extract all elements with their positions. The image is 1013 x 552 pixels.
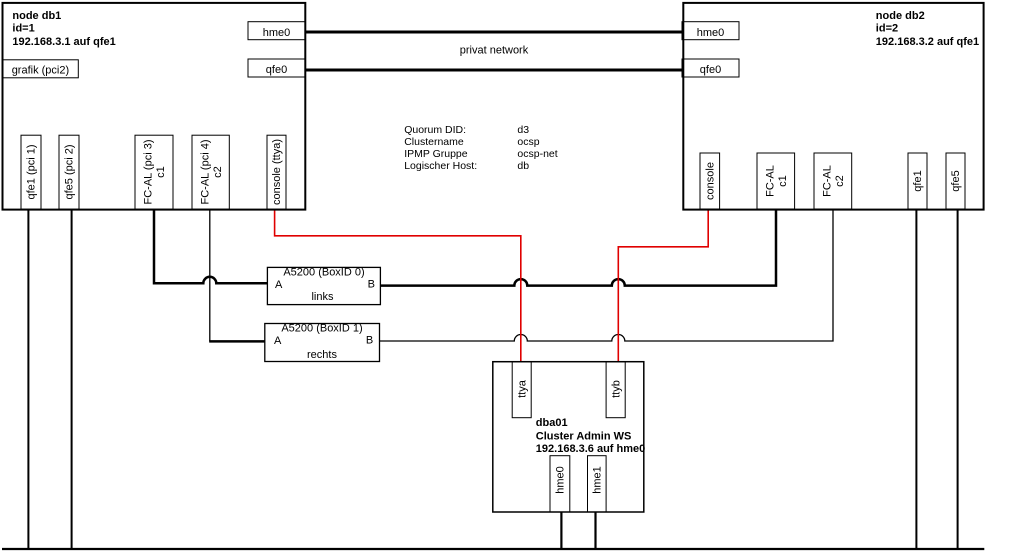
svg-text:rechts: rechts	[307, 349, 337, 361]
svg-text:B: B	[366, 335, 373, 347]
svg-text:192.168.3.2 auf qfe1: 192.168.3.2 auf qfe1	[876, 36, 979, 48]
svg-text:IPMP Gruppe: IPMP Gruppe	[404, 148, 468, 160]
hme0 port box db1	[248, 22, 305, 40]
qfe5 port box db2	[946, 153, 965, 209]
qfe5 (pci 2) port box db1	[59, 135, 79, 209]
wire A5200-1 port B to FC-AL c2 db2 (hops over red ttya and ttyb wires)	[380, 209, 833, 341]
hme0 port box dba01	[550, 456, 570, 512]
svg-text:ocsp: ocsp	[517, 136, 539, 148]
svg-text:qfe0: qfe0	[266, 64, 287, 76]
qfe0 port box db1	[248, 59, 305, 77]
wire qfe1-db2 to public net	[915, 209, 917, 549]
svg-text:node db2: node db2	[876, 10, 925, 22]
wire hme0-dba01 to public net	[560, 511, 562, 549]
svg-text:id=1: id=1	[12, 23, 34, 35]
wire FC-AL c2 db1 vertical	[209, 209, 211, 341]
console port box db2	[700, 153, 720, 209]
public network bus line	[2, 548, 984, 550]
svg-text:192.168.3.1 auf qfe1: 192.168.3.1 auf qfe1	[12, 36, 115, 48]
svg-text:Logischer Host:: Logischer Host:	[404, 160, 477, 172]
svg-text:grafik (pci2): grafik (pci2)	[12, 65, 69, 77]
node db1 box	[3, 3, 306, 210]
svg-text:node db1: node db1	[12, 10, 61, 22]
svg-text:ocsp-net: ocsp-net	[517, 148, 557, 160]
grafik (pci2) box db1	[2, 60, 78, 78]
ttya port box dba01	[512, 362, 531, 418]
dba01 admin workstation box	[493, 362, 644, 512]
A5200 BoxID 1 disk array box	[265, 324, 380, 362]
red serial wire console db2 to ttyb dba01	[618, 209, 708, 362]
FC-AL (pci 3) c1 port box db1	[135, 135, 173, 209]
svg-text:qfe1 (pci 1): qfe1 (pci 1)	[26, 144, 38, 199]
svg-text:id=2: id=2	[876, 23, 898, 35]
link qfe0 db1 to qfe0 db2 (privat network bottom)	[305, 69, 683, 72]
FC-AL c1 port box db2	[757, 153, 795, 209]
svg-text:FC-AL (pci 4): FC-AL (pci 4)	[200, 140, 212, 205]
svg-text:ttya: ttya	[517, 379, 529, 398]
wire qfe5-db2 to public net	[957, 209, 959, 549]
node db2 box	[683, 3, 983, 210]
svg-text:hme0: hme0	[555, 466, 567, 494]
A5200 BoxID 0 disk array box	[267, 267, 380, 304]
svg-text:FC-AL: FC-AL	[765, 165, 777, 197]
svg-text:c2: c2	[212, 166, 224, 178]
svg-text:A5200 (BoxID 0): A5200 (BoxID 0)	[283, 266, 364, 278]
ttyb port box dba01	[606, 362, 625, 418]
svg-text:privat network: privat network	[460, 45, 529, 57]
hme0 port box db2	[682, 22, 739, 40]
svg-text:qfe1: qfe1	[912, 170, 924, 191]
wire hme1-dba01 to public net	[594, 511, 596, 549]
svg-text:Clustername: Clustername	[404, 136, 464, 148]
svg-text:hme0: hme0	[263, 27, 291, 39]
svg-text:A: A	[275, 279, 283, 291]
wire A5200-0 port B to FC-AL c1 db2 (hops over red ttya and ttyb wires)	[381, 209, 777, 286]
svg-text:ttyb: ttyb	[611, 380, 623, 398]
red serial wire console(ttya) db1 to ttya dba01	[275, 209, 521, 362]
svg-text:B: B	[368, 279, 375, 291]
qfe1 port box db2	[908, 153, 927, 209]
svg-text:d3: d3	[517, 124, 529, 136]
svg-text:FC-AL: FC-AL	[822, 165, 834, 197]
svg-text:hme1: hme1	[592, 466, 604, 494]
FC-AL (pci 4) c2 port box db1	[192, 135, 229, 209]
svg-text:links: links	[311, 291, 334, 303]
FC-AL c2 port box db2	[814, 153, 852, 209]
svg-text:db: db	[517, 160, 529, 172]
qfe1 (pci 1) port box db1	[21, 135, 41, 209]
wire FC-AL c1 db1 to A5200-0 port A (hop over c2)	[154, 209, 268, 283]
svg-text:FC-AL (pci 3): FC-AL (pci 3)	[143, 140, 155, 205]
svg-text:console (ttya): console (ttya)	[271, 139, 283, 205]
svg-text:c1: c1	[777, 175, 789, 187]
svg-text:c2: c2	[834, 175, 846, 187]
link hme0 db1 to hme0 db2 (privat network top)	[305, 31, 683, 34]
svg-text:c1: c1	[155, 166, 167, 178]
svg-text:192.168.3.6 auf hme0: 192.168.3.6 auf hme0	[536, 443, 645, 455]
hme1 port box dba01	[588, 456, 607, 512]
svg-text:A5200 (BoxID 1): A5200 (BoxID 1)	[281, 322, 362, 334]
svg-text:qfe5 (pci 2): qfe5 (pci 2)	[64, 144, 76, 199]
svg-text:hme0: hme0	[697, 27, 725, 39]
svg-text:A: A	[274, 335, 282, 347]
svg-text:qfe0: qfe0	[700, 64, 721, 76]
svg-text:Cluster Admin WS: Cluster Admin WS	[536, 431, 632, 443]
qfe0 port box db2	[682, 59, 739, 77]
svg-text:dba01: dba01	[536, 417, 568, 429]
svg-text:console: console	[704, 162, 716, 200]
wire qfe5-db1 to public net	[71, 209, 73, 549]
wire qfe1-db1 to public net	[27, 209, 29, 549]
svg-text:Quorum DID:: Quorum DID:	[404, 124, 466, 136]
console (ttya) port box db1	[267, 135, 286, 209]
svg-text:qfe5: qfe5	[950, 170, 962, 191]
wire FC-AL c2 db1 to A5200-1 port A	[209, 340, 265, 343]
